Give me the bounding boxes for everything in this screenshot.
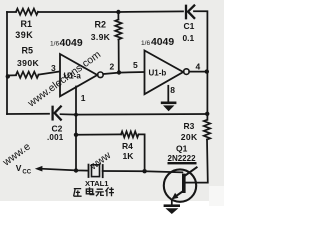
svg-text:3: 3 [51,63,56,73]
wire vertical feedback drop from pin1 node down [75,115,77,171]
svg-text:4049: 4049 [151,37,174,48]
label 压电元件 (piezoelectric element, drawn strokes) [74,187,114,196]
node dot R4 branch [74,133,78,137]
resistor R3 vertical on right rail [204,120,210,140]
wire C1 to top-right corner and right rail down [194,11,207,71]
svg-text:R5: R5 [22,46,34,56]
Q1 emitter stem to ground [171,199,173,204]
node dot middle rail / feedback drop [74,113,78,117]
svg-text:20K: 20K [181,132,198,142]
node dot bottom rail / feedback drop [74,168,78,172]
resistor R1 [16,9,38,15]
capacitor C2 [53,107,61,120]
svg-text:Q1: Q1 [176,143,188,153]
inverter U1-b (1/6 4049) triangle [145,51,184,95]
svg-text:4049: 4049 [60,38,83,49]
svg-text:1/6: 1/6 [141,40,150,47]
ground symbol Q1 emitter [164,204,180,207]
wire left rail [6,12,8,114]
transistor Q1 circle [164,169,196,201]
svg-text:R1: R1 [21,19,33,29]
Q1 collector diagonal [186,167,197,175]
svg-text:3.9K: 3.9K [91,32,111,42]
svg-text:39K: 39K [15,30,33,40]
wire top rail left of R1 [7,11,16,13]
wire R4 to drop corner [139,134,145,171]
svg-text:1: 1 [81,93,86,103]
resistor R5 [16,72,39,78]
svg-text:5: 5 [133,60,138,70]
svg-text:U1-b: U1-b [149,69,167,78]
svg-text:390K: 390K [17,58,40,68]
Q1 collector wire inside [186,182,196,184]
svg-text:.001: .001 [47,133,64,142]
node dot R2 bottom / gate wire [117,70,121,74]
wire bottom rail Vcc arrow to XTAL [41,169,87,171]
crystal XTAL1 [89,165,103,178]
wire middle rail C2 to right rail [61,113,208,116]
output bubble U1-a [98,72,104,78]
svg-text:R3: R3 [184,121,195,131]
scan background [0,0,224,223]
node dot middle rail / right rail [205,112,209,116]
wire pin 1 stem of U1-a [75,87,77,115]
wire U1-b pin 8 stem [167,86,169,102]
resistor R2 vertical with leads [117,12,119,20]
node dot bottom rail / R4 drop [142,169,146,173]
svg-text:8: 8 [170,85,175,95]
svg-text:R2: R2 [95,20,107,30]
wire XTAL to transistor base [103,171,183,172]
node dot top rail / R2 [116,10,120,14]
svg-text:U1-a: U1-a [64,71,82,80]
svg-text:4: 4 [196,62,201,72]
capacitor C1 [186,6,194,19]
wire right rail R3 to collector corner [196,140,208,183]
svg-text:1/6: 1/6 [50,40,59,47]
ground symbol U1-b pin8 [161,102,177,105]
wire middle rail with C2 : left rail corner to C2 [7,113,49,115]
svg-text:R4: R4 [122,141,133,151]
wire R5 to pin 3 [39,72,60,75]
svg-text:C1: C1 [184,21,195,31]
node dot left rail / R5 [6,74,10,78]
wire U1-b output to right rail [189,71,207,73]
wire right rail middle segment [206,72,208,120]
output bubble U1-b [184,69,190,75]
svg-text:C2: C2 [52,123,63,133]
Q1 emitter diagonal [174,191,183,198]
svg-text:V: V [16,163,22,173]
Q1 base bar [182,174,186,193]
svg-text:2: 2 [110,62,115,72]
svg-text:CC: CC [22,170,31,176]
resistor R4 [121,131,139,137]
svg-text:XTAL1: XTAL1 [85,179,109,188]
svg-text:1K: 1K [123,151,135,161]
wire R4 branch from vertical [76,133,121,135]
wire R5 input from left rail [7,74,16,76]
svg-text:0.1: 0.1 [183,33,195,43]
Q1 emitter arrowhead [172,193,179,200]
node dot U1-b output / right rail [205,69,209,73]
wire U1-a output to U1-b input [103,72,144,74]
inverter U1-a (1/6 4049) triangle [60,54,97,96]
wire top rail R1 to C1 [38,10,183,13]
svg-text:2N2222: 2N2222 [168,154,197,163]
Vcc arrowhead [35,166,43,172]
